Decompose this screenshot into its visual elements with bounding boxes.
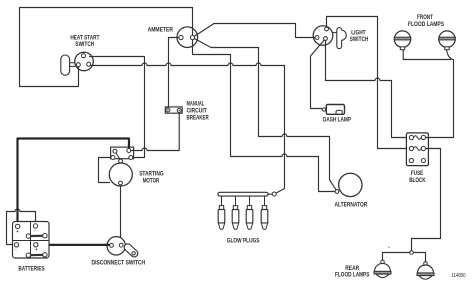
svg-text:ALTERNATOR: ALTERNATOR bbox=[335, 202, 368, 209]
svg-text:DASH LAMP: DASH LAMP bbox=[323, 117, 351, 124]
svg-text:114800: 114800 bbox=[451, 273, 465, 279]
svg-text:GLOW PLUGS: GLOW PLUGS bbox=[227, 238, 260, 245]
svg-text:BLOCK: BLOCK bbox=[409, 177, 426, 184]
svg-text:MOTOR: MOTOR bbox=[143, 177, 160, 184]
svg-text:DISCONNECT SWITCH: DISCONNECT SWITCH bbox=[92, 260, 146, 267]
svg-text:SWITCH: SWITCH bbox=[350, 36, 369, 43]
svg-text:FLOOD LAMPS: FLOOD LAMPS bbox=[408, 21, 444, 28]
svg-text:FLOOD LAMPS: FLOOD LAMPS bbox=[335, 271, 369, 278]
svg-text:AMMETER: AMMETER bbox=[148, 26, 174, 33]
svg-text:SWITCH: SWITCH bbox=[75, 41, 94, 48]
svg-text:BREAKER: BREAKER bbox=[187, 114, 210, 121]
svg-text:BATTERIES: BATTERIES bbox=[18, 265, 44, 272]
